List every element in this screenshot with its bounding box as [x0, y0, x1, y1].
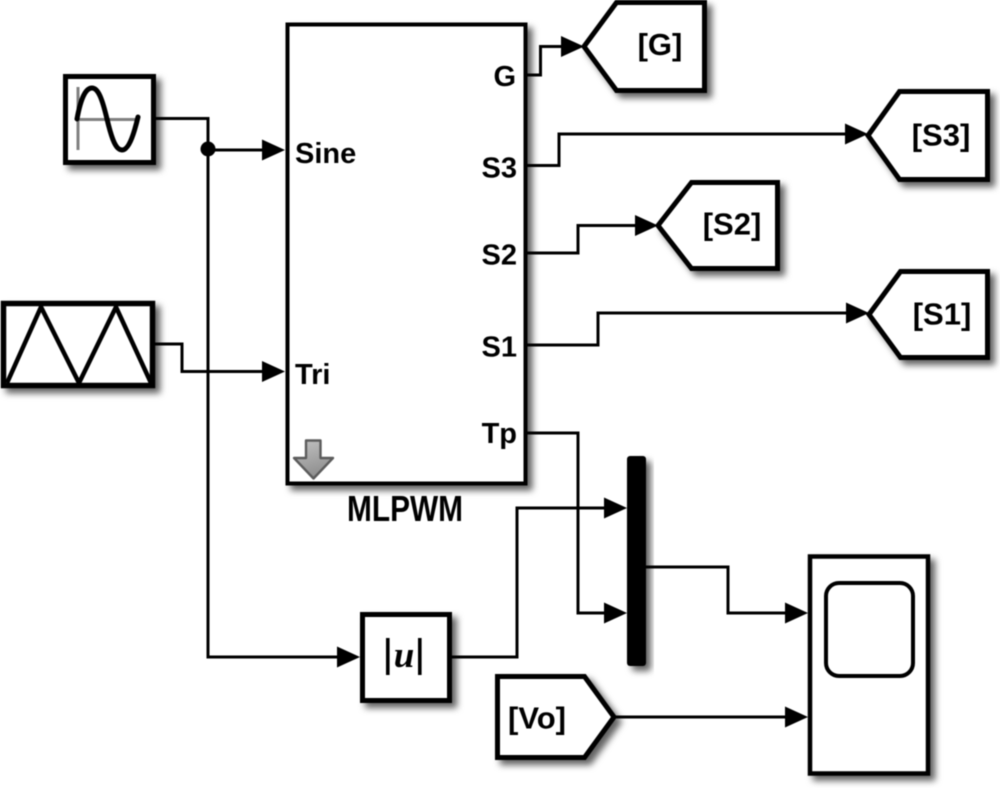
wire triangle out to Tri port	[152, 344, 262, 372]
svg-text:S2: S2	[482, 240, 517, 272]
wire G out to [G]	[525, 47, 561, 76]
arrowhead into [G]	[561, 36, 584, 57]
junction node	[201, 142, 216, 157]
arrowhead into mux input 1	[604, 498, 627, 519]
scope screen	[826, 583, 913, 676]
arrowhead into Sine port	[262, 140, 285, 161]
arrowhead into Tri port	[262, 361, 285, 382]
arrowhead into abs	[337, 647, 360, 668]
goto tag [S1]	[869, 272, 988, 358]
goto tag [S2]	[658, 183, 778, 269]
wire S3 out to [S3]	[525, 134, 845, 166]
wire S1 out to [S1]	[525, 313, 846, 345]
goto tag [G]	[584, 3, 705, 91]
wire [Vo] out to scope input 2	[614, 716, 785, 719]
from tag [Vo]	[498, 677, 615, 758]
arrowhead into scope input 2	[785, 707, 808, 728]
mux	[627, 456, 646, 666]
wire mux out to scope input 1	[646, 567, 785, 613]
svg-text:[Vo]: [Vo]	[508, 701, 566, 736]
svg-text:S1: S1	[482, 332, 517, 364]
arrowhead into [S3]	[845, 124, 868, 145]
svg-text:Sine: Sine	[295, 138, 356, 170]
arrowhead into mux input 2	[604, 603, 627, 624]
wire Tp out to mux input 2	[525, 433, 604, 613]
subsystem MLPWM	[288, 25, 526, 484]
triangle icon	[7, 307, 151, 383]
sine icon axes	[76, 87, 139, 150]
scope	[810, 557, 928, 774]
svg-text:G: G	[493, 61, 516, 93]
abs label |u|	[386, 635, 422, 676]
svg-text:[S2]: [S2]	[703, 207, 762, 242]
wire junction down to abs input	[208, 150, 337, 657]
svg-text:u: u	[394, 635, 415, 676]
arrowhead into [S2]	[635, 215, 658, 236]
svg-text:Tp: Tp	[482, 418, 517, 450]
sine icon curve	[77, 88, 138, 150]
svg-text:MLPWM: MLPWM	[347, 488, 463, 529]
svg-text:[S3]: [S3]	[912, 118, 971, 153]
triangle wave source block	[4, 304, 153, 386]
wire S2 out to [S2]	[525, 226, 635, 254]
svg-text:S3: S3	[482, 153, 517, 185]
arrowhead into scope input 1	[785, 603, 808, 624]
svg-text:[G]: [G]	[638, 27, 683, 62]
svg-text:Tri: Tri	[295, 359, 330, 391]
MLPWM gray down-arrow icon	[294, 441, 333, 479]
wire abs out to mux input 1	[450, 508, 604, 657]
goto tag [S3]	[868, 92, 988, 180]
svg-text:[S1]: [S1]	[913, 297, 972, 332]
arrowhead into [S1]	[846, 303, 869, 324]
abs block |u|	[363, 615, 450, 701]
wire sine out to junction and Sine port	[156, 119, 262, 151]
sine wave source block	[66, 77, 154, 163]
